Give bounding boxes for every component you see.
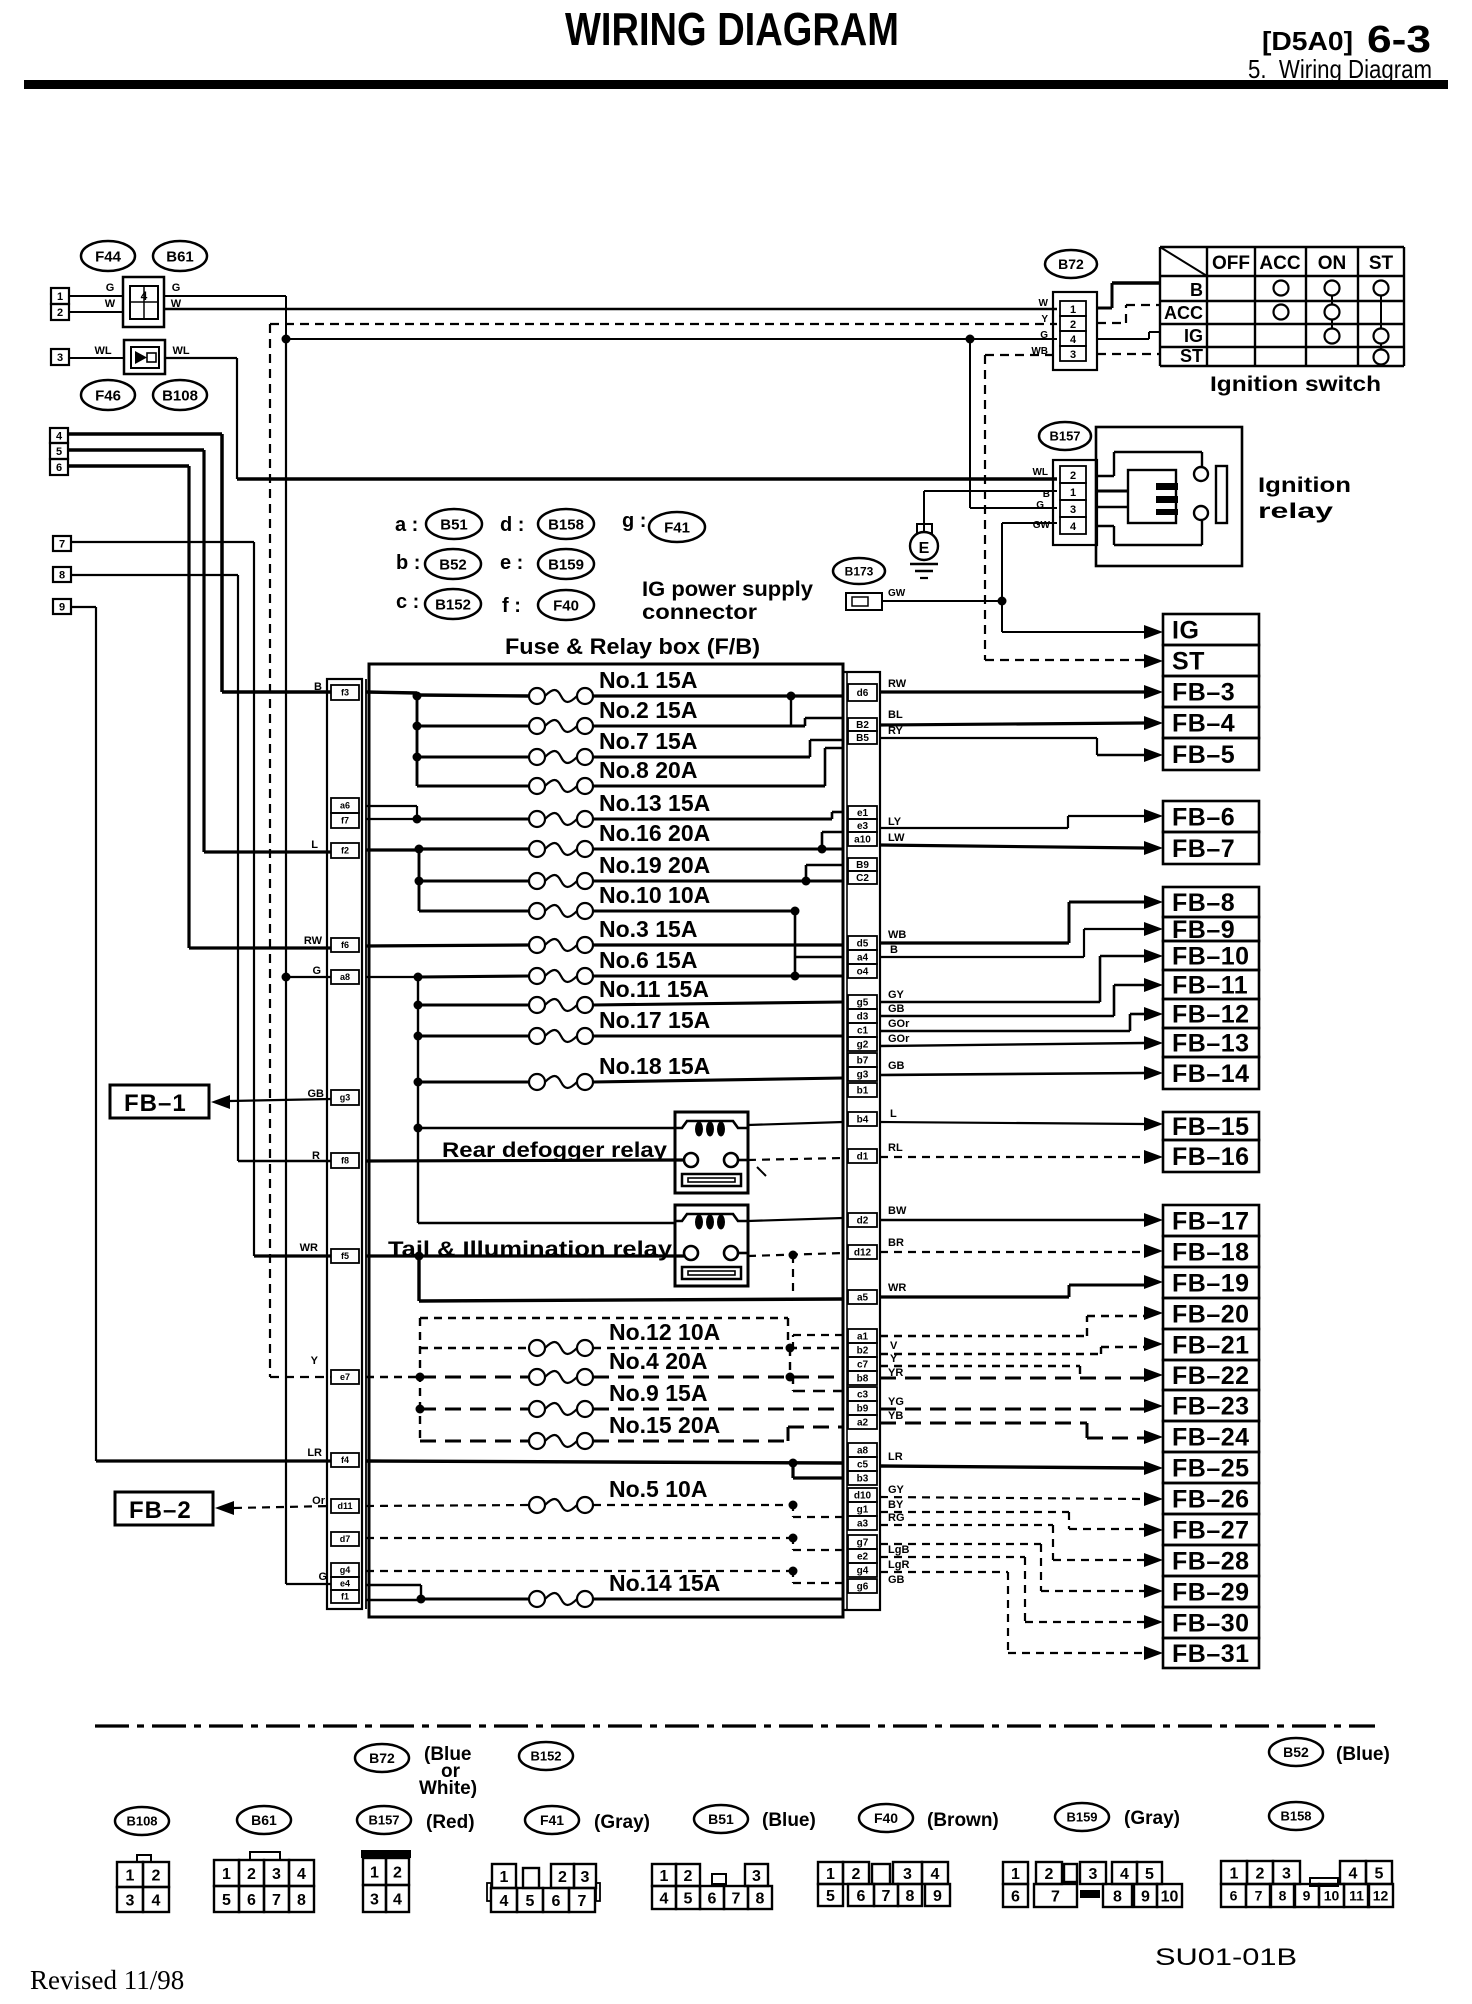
svg-text:3: 3	[752, 1868, 761, 1885]
svg-text:No.11 15A: No.11 15A	[599, 976, 709, 1002]
svg-text:2: 2	[852, 1866, 861, 1883]
svg-text:2: 2	[152, 1867, 161, 1884]
svg-text:Revised 11/98: Revised 11/98	[30, 1965, 184, 1995]
svg-text:relay: relay	[1258, 500, 1333, 523]
svg-text:Y: Y	[311, 1355, 319, 1367]
svg-text:1: 1	[1070, 487, 1076, 499]
svg-text:B: B	[890, 944, 898, 956]
svg-text:a2: a2	[857, 1418, 869, 1429]
svg-text:2: 2	[1045, 1866, 1054, 1883]
svg-text:7: 7	[882, 1888, 891, 1905]
svg-text:FB–27: FB–27	[1172, 1517, 1250, 1545]
svg-text:BL: BL	[888, 709, 903, 721]
svg-text:3: 3	[370, 1891, 379, 1908]
svg-text:No.18 15A: No.18 15A	[599, 1053, 710, 1079]
svg-text:No.8 20A: No.8 20A	[599, 757, 697, 783]
svg-text:4: 4	[152, 1892, 161, 1909]
svg-text:11: 11	[1349, 1888, 1364, 1904]
svg-text:GB: GB	[888, 1060, 905, 1072]
svg-text:7: 7	[59, 539, 65, 551]
svg-text:LgB: LgB	[888, 1544, 909, 1556]
svg-text:GOr: GOr	[888, 1033, 910, 1045]
svg-text:f :: f :	[502, 595, 521, 617]
svg-text:6: 6	[708, 1890, 717, 1907]
svg-text:g3: g3	[857, 1070, 869, 1081]
svg-text:FB–17: FB–17	[1172, 1208, 1250, 1236]
svg-text:4: 4	[931, 1866, 940, 1883]
svg-text:ST: ST	[1180, 346, 1203, 366]
svg-text:ON: ON	[1318, 253, 1347, 274]
svg-text:f4: f4	[341, 1455, 349, 1465]
svg-text:WB: WB	[1031, 346, 1048, 357]
svg-text:LgR: LgR	[888, 1559, 909, 1571]
svg-text:4: 4	[56, 431, 63, 443]
svg-text:2: 2	[57, 307, 63, 319]
svg-text:(Red): (Red)	[426, 1812, 475, 1833]
svg-text:e7: e7	[340, 1372, 350, 1382]
svg-text:FB–8: FB–8	[1172, 889, 1235, 917]
svg-text:ST: ST	[1369, 253, 1394, 274]
svg-text:No.5 10A: No.5 10A	[609, 1476, 707, 1502]
svg-text:(Blue): (Blue)	[762, 1810, 816, 1831]
svg-text:B159: B159	[548, 556, 584, 573]
svg-text:o4: o4	[857, 967, 869, 978]
svg-text:a6: a6	[340, 801, 350, 811]
svg-text:B9: B9	[856, 860, 869, 871]
svg-text:e1: e1	[857, 808, 869, 819]
svg-text:8: 8	[1113, 1888, 1122, 1905]
svg-text:5: 5	[684, 1890, 693, 1907]
svg-text:(Blue): (Blue)	[1336, 1744, 1390, 1765]
svg-text:YG: YG	[888, 1396, 904, 1408]
svg-text:B159: B159	[1066, 1810, 1097, 1825]
svg-text:Y: Y	[890, 1353, 898, 1365]
svg-text:e2: e2	[857, 1552, 869, 1563]
svg-text:2: 2	[1070, 470, 1076, 482]
svg-text:ACC: ACC	[1259, 253, 1300, 274]
svg-text:F40: F40	[874, 1810, 898, 1826]
svg-text:FB–6: FB–6	[1172, 804, 1235, 832]
svg-text:f5: f5	[341, 1251, 349, 1261]
svg-text:5: 5	[1375, 1865, 1384, 1882]
svg-text:5. Wiring Diagram: 5. Wiring Diagram	[1248, 54, 1432, 84]
svg-text:a5: a5	[857, 1293, 869, 1304]
svg-text:b4: b4	[857, 1115, 869, 1126]
svg-text:GW: GW	[1033, 520, 1051, 531]
svg-text:F41: F41	[664, 519, 690, 536]
svg-text:Fuse & Relay box (F/B): Fuse & Relay box (F/B)	[505, 634, 760, 659]
svg-text:B5: B5	[856, 733, 869, 744]
svg-text:b1: b1	[857, 1086, 869, 1097]
svg-text:No.4 20A: No.4 20A	[609, 1348, 707, 1374]
svg-text:B51: B51	[440, 516, 468, 533]
svg-text:d6: d6	[857, 688, 869, 699]
svg-text:No.3 15A: No.3 15A	[599, 916, 697, 942]
svg-text:FB–19: FB–19	[1172, 1270, 1250, 1298]
svg-text:5: 5	[826, 1888, 835, 1905]
svg-text:GB: GB	[888, 1574, 905, 1586]
svg-text:SU01-01B: SU01-01B	[1155, 1944, 1297, 1971]
svg-text:WR: WR	[300, 1242, 318, 1254]
svg-text:Y: Y	[1041, 314, 1048, 325]
svg-text:B72: B72	[369, 1750, 395, 1766]
svg-text:8: 8	[59, 570, 65, 582]
svg-text:FB–29: FB–29	[1172, 1579, 1250, 1607]
svg-text:3: 3	[126, 1892, 135, 1909]
svg-text:a10: a10	[854, 835, 871, 846]
svg-text:1: 1	[222, 1866, 231, 1883]
svg-text:E: E	[919, 540, 930, 557]
svg-text:g4: g4	[857, 1566, 869, 1577]
svg-text:2: 2	[393, 1864, 402, 1881]
svg-text:B158: B158	[548, 516, 584, 533]
svg-text:ACC: ACC	[1164, 303, 1203, 323]
svg-text:3: 3	[581, 1869, 590, 1886]
svg-text:c5: c5	[857, 1460, 869, 1471]
svg-text:10: 10	[1324, 1888, 1340, 1904]
svg-text:No.1 15A: No.1 15A	[599, 667, 697, 693]
svg-text:f6: f6	[341, 940, 349, 950]
svg-text:No.2 15A: No.2 15A	[599, 697, 697, 723]
svg-text:No.19 20A: No.19 20A	[599, 852, 710, 878]
svg-text:FB–2: FB–2	[129, 1497, 192, 1524]
svg-text:g1: g1	[857, 1505, 869, 1516]
svg-text:9: 9	[933, 1888, 942, 1905]
svg-text:FB–5: FB–5	[1172, 741, 1235, 769]
svg-text:B173: B173	[845, 564, 874, 578]
svg-text:2: 2	[558, 1869, 567, 1886]
svg-text:2: 2	[1256, 1865, 1265, 1882]
svg-text:6: 6	[1011, 1888, 1020, 1905]
svg-text:1: 1	[500, 1869, 509, 1886]
svg-text:7: 7	[1255, 1888, 1263, 1904]
svg-text:3: 3	[1070, 504, 1076, 516]
svg-text:3: 3	[272, 1866, 281, 1883]
svg-text:RL: RL	[888, 1142, 903, 1154]
svg-text:LW: LW	[888, 832, 905, 844]
svg-text:e :: e :	[500, 552, 523, 574]
svg-text:FB–30: FB–30	[1172, 1610, 1250, 1638]
svg-text:ST: ST	[1172, 648, 1205, 676]
svg-text:g :: g :	[622, 510, 646, 532]
svg-text:FB–11: FB–11	[1172, 972, 1248, 1000]
svg-text:B: B	[1190, 280, 1203, 300]
svg-text:W: W	[1039, 298, 1049, 309]
svg-text:f7: f7	[341, 816, 349, 826]
svg-text:8: 8	[297, 1892, 306, 1909]
svg-text:B51: B51	[708, 1811, 734, 1827]
svg-text:FB–3: FB–3	[1172, 679, 1235, 707]
svg-text:YR: YR	[888, 1367, 903, 1379]
svg-text:b7: b7	[857, 1056, 869, 1067]
svg-text:7: 7	[578, 1893, 587, 1910]
svg-text:FB–21: FB–21	[1172, 1332, 1250, 1360]
svg-text:9: 9	[59, 602, 65, 614]
svg-text:No.14 15A: No.14 15A	[609, 1570, 720, 1596]
svg-text:1: 1	[126, 1867, 135, 1884]
svg-text:F46: F46	[95, 387, 121, 404]
svg-text:F41: F41	[540, 1812, 564, 1828]
svg-text:No.9 15A: No.9 15A	[609, 1380, 707, 1406]
svg-text:FB–13: FB–13	[1172, 1030, 1250, 1058]
svg-text:d10: d10	[854, 1491, 872, 1502]
svg-text:BW: BW	[888, 1205, 907, 1217]
svg-text:4: 4	[1070, 521, 1077, 533]
svg-text:WL: WL	[94, 345, 111, 357]
svg-text:4: 4	[1120, 1866, 1129, 1883]
svg-text:GOr: GOr	[888, 1018, 910, 1030]
svg-text:[D5A0]: [D5A0]	[1262, 26, 1353, 56]
svg-text:2: 2	[684, 1868, 693, 1885]
svg-text:FB–31: FB–31	[1172, 1640, 1250, 1668]
svg-text:B2: B2	[856, 720, 869, 731]
svg-text:BR: BR	[888, 1237, 904, 1249]
svg-text:g2: g2	[857, 1040, 869, 1051]
svg-text:GB: GB	[888, 1003, 905, 1015]
svg-text:f2: f2	[341, 846, 349, 856]
svg-text:No.10 10A: No.10 10A	[599, 882, 710, 908]
svg-text:B52: B52	[439, 556, 467, 573]
svg-text:B52: B52	[1283, 1744, 1309, 1760]
svg-text:Rear defogger relay: Rear defogger relay	[442, 1139, 667, 1162]
svg-text:5: 5	[526, 1893, 535, 1910]
svg-text:No.17 15A: No.17 15A	[599, 1007, 710, 1033]
svg-text:FB–24: FB–24	[1172, 1424, 1250, 1452]
svg-text:c1: c1	[857, 1026, 869, 1037]
svg-text:d5: d5	[857, 939, 869, 950]
svg-text:FB–12: FB–12	[1172, 1001, 1250, 1029]
svg-text:g5: g5	[857, 998, 869, 1009]
svg-text:a8: a8	[340, 972, 350, 982]
svg-text:FB–4: FB–4	[1172, 710, 1235, 738]
svg-text:1: 1	[660, 1868, 669, 1885]
svg-text:1: 1	[370, 1864, 379, 1881]
svg-text:7: 7	[732, 1890, 741, 1907]
svg-text:R: R	[312, 1150, 320, 1162]
svg-text:d2: d2	[857, 1216, 869, 1227]
svg-text:a1: a1	[857, 1332, 869, 1343]
svg-text:4: 4	[1349, 1865, 1358, 1882]
svg-text:G: G	[1040, 330, 1048, 341]
svg-text:LY: LY	[888, 816, 902, 828]
svg-text:B72: B72	[1058, 256, 1084, 272]
svg-text:e3: e3	[857, 821, 869, 832]
svg-text:B152: B152	[530, 1749, 561, 1764]
svg-text:B157: B157	[1049, 429, 1080, 444]
svg-text:1: 1	[1230, 1865, 1239, 1882]
svg-text:d7: d7	[340, 1534, 351, 1544]
svg-text:b9: b9	[857, 1404, 869, 1415]
svg-text:c :: c :	[396, 591, 419, 613]
svg-text:WL: WL	[172, 345, 189, 357]
svg-text:f8: f8	[341, 1156, 349, 1166]
svg-text:a4: a4	[857, 953, 869, 964]
svg-text:IG: IG	[1184, 326, 1203, 346]
svg-text:5: 5	[222, 1892, 231, 1909]
svg-text:W: W	[105, 298, 116, 310]
svg-text:B158: B158	[1280, 1809, 1311, 1824]
svg-text:BY: BY	[888, 1499, 904, 1511]
svg-text:c3: c3	[857, 1390, 869, 1401]
svg-text:1: 1	[1070, 304, 1076, 316]
svg-text:connector: connector	[642, 601, 757, 624]
svg-text:IG: IG	[1172, 617, 1199, 645]
svg-text:d1: d1	[857, 1152, 869, 1163]
svg-text:L: L	[890, 1108, 897, 1120]
svg-text:g4: g4	[340, 1565, 351, 1575]
svg-text:g3: g3	[340, 1093, 351, 1103]
svg-text:B108: B108	[126, 1814, 157, 1829]
svg-text:4: 4	[500, 1893, 509, 1910]
svg-text:Ignition switch: Ignition switch	[1210, 373, 1381, 396]
svg-text:B152: B152	[435, 596, 471, 613]
svg-text:8: 8	[756, 1890, 765, 1907]
svg-text:(Brown): (Brown)	[927, 1810, 999, 1831]
svg-text:f1: f1	[341, 1592, 349, 1602]
svg-text:WL: WL	[1032, 467, 1048, 478]
svg-text:5: 5	[56, 446, 62, 458]
svg-text:6: 6	[56, 462, 62, 474]
svg-text:WR: WR	[888, 1282, 906, 1294]
svg-text:d11: d11	[337, 1501, 352, 1511]
svg-text:4: 4	[297, 1866, 306, 1883]
svg-text:1: 1	[1011, 1866, 1020, 1883]
svg-text:3: 3	[903, 1866, 912, 1883]
svg-text:FB–16: FB–16	[1172, 1143, 1250, 1171]
svg-text:1: 1	[826, 1866, 835, 1883]
svg-text:FB–1: FB–1	[124, 1090, 187, 1117]
svg-text:F44: F44	[95, 248, 122, 265]
svg-text:2: 2	[1070, 319, 1076, 331]
svg-text:C2: C2	[856, 873, 869, 884]
svg-text:B108: B108	[162, 387, 198, 404]
svg-text:5: 5	[1145, 1866, 1154, 1883]
svg-text:3: 3	[1282, 1865, 1291, 1882]
svg-text:FB–26: FB–26	[1172, 1486, 1250, 1514]
svg-text:LR: LR	[888, 1451, 903, 1463]
svg-text:g7: g7	[857, 1538, 869, 1549]
svg-text:4: 4	[141, 289, 148, 303]
svg-text:V: V	[890, 1340, 898, 1352]
svg-text:Ignition: Ignition	[1258, 474, 1351, 497]
svg-text:No.12 10A: No.12 10A	[609, 1319, 720, 1345]
svg-text:No.7 15A: No.7 15A	[599, 728, 697, 754]
svg-text:4: 4	[660, 1890, 669, 1907]
svg-text:F40: F40	[553, 597, 579, 614]
svg-text:(Gray): (Gray)	[1124, 1808, 1180, 1829]
svg-text:b3: b3	[857, 1474, 869, 1485]
svg-text:G: G	[1036, 500, 1044, 511]
svg-text:FB–7: FB–7	[1172, 835, 1235, 863]
svg-text:FB–25: FB–25	[1172, 1455, 1250, 1483]
svg-text:B61: B61	[166, 248, 194, 265]
svg-text:(Gray): (Gray)	[594, 1812, 650, 1833]
svg-text:g6: g6	[857, 1582, 869, 1593]
svg-text:FB–23: FB–23	[1172, 1393, 1250, 1421]
svg-text:6: 6	[857, 1888, 866, 1905]
svg-text:RY: RY	[888, 725, 904, 737]
svg-text:OFF: OFF	[1212, 253, 1250, 274]
svg-text:No.6 15A: No.6 15A	[599, 947, 697, 973]
svg-text:7: 7	[272, 1892, 281, 1909]
svg-text:FB–10: FB–10	[1172, 943, 1250, 971]
svg-text:d12: d12	[854, 1248, 872, 1259]
svg-text:B157: B157	[368, 1813, 399, 1828]
svg-text:FB–18: FB–18	[1172, 1239, 1250, 1267]
svg-text:G: G	[106, 282, 115, 294]
svg-text:b8: b8	[857, 1374, 869, 1385]
svg-text:c7: c7	[857, 1360, 869, 1371]
svg-text:3: 3	[1089, 1866, 1098, 1883]
svg-text:G: G	[312, 965, 321, 977]
svg-text:10: 10	[1161, 1888, 1179, 1905]
svg-text:RW: RW	[888, 678, 907, 690]
svg-text:FB–28: FB–28	[1172, 1548, 1250, 1576]
svg-text:6: 6	[1230, 1888, 1238, 1904]
svg-text:FB–22: FB–22	[1172, 1362, 1250, 1390]
svg-text:9: 9	[1303, 1888, 1311, 1904]
svg-text:WB: WB	[888, 929, 906, 941]
svg-text:GW: GW	[888, 588, 906, 599]
svg-text:L: L	[311, 839, 318, 851]
svg-text:4: 4	[1070, 334, 1077, 346]
svg-text:a :: a :	[395, 514, 418, 536]
svg-text:b :: b :	[396, 552, 420, 574]
svg-text:FB–15: FB–15	[1172, 1113, 1250, 1141]
svg-text:3: 3	[1070, 349, 1076, 361]
svg-text:6: 6	[247, 1892, 256, 1909]
svg-text:White): White)	[419, 1778, 477, 1799]
svg-text:3: 3	[57, 352, 63, 364]
svg-text:No.15 20A: No.15 20A	[609, 1412, 720, 1438]
svg-text:No.13 15A: No.13 15A	[599, 790, 710, 816]
svg-text:b2: b2	[857, 1346, 869, 1357]
svg-text:YB: YB	[888, 1410, 903, 1422]
svg-text:B61: B61	[251, 1812, 277, 1828]
svg-text:12: 12	[1373, 1888, 1389, 1904]
svg-text:GY: GY	[888, 989, 905, 1001]
svg-text:8: 8	[1279, 1888, 1287, 1904]
svg-text:a3: a3	[857, 1519, 869, 1530]
svg-text:RW: RW	[304, 935, 323, 947]
svg-text:FB–14: FB–14	[1172, 1060, 1250, 1088]
svg-text:B: B	[314, 681, 322, 693]
svg-text:G: G	[172, 282, 181, 294]
svg-text:7: 7	[1051, 1888, 1060, 1905]
svg-text:a8: a8	[857, 1446, 869, 1457]
svg-text:1: 1	[57, 291, 63, 303]
svg-text:e4: e4	[340, 1579, 350, 1589]
svg-text:FB–20: FB–20	[1172, 1301, 1250, 1329]
svg-text:RG: RG	[888, 1512, 905, 1524]
svg-text:G: G	[318, 1571, 327, 1583]
svg-text:d3: d3	[857, 1012, 869, 1023]
svg-text:WIRING DIAGRAM: WIRING DIAGRAM	[565, 3, 899, 55]
svg-text:4: 4	[393, 1891, 402, 1908]
svg-text:GY: GY	[888, 1484, 905, 1496]
svg-text:2: 2	[247, 1866, 256, 1883]
svg-text:6: 6	[552, 1893, 561, 1910]
svg-text:f3: f3	[341, 688, 349, 698]
svg-text:9: 9	[1141, 1888, 1150, 1905]
svg-text:No.16 20A: No.16 20A	[599, 820, 710, 846]
svg-text:LR: LR	[307, 1447, 322, 1459]
svg-text:8: 8	[906, 1888, 915, 1905]
svg-text:d :: d :	[500, 514, 524, 536]
svg-text:IG power supply: IG power supply	[642, 578, 813, 601]
